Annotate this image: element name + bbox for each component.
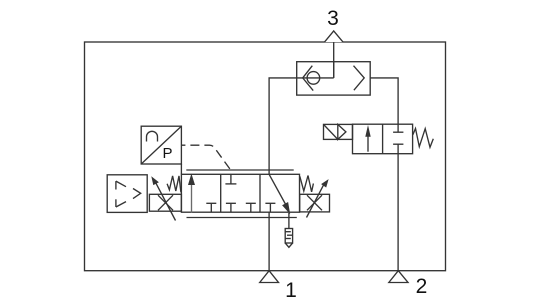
blocked port box2 bottom right — [246, 203, 256, 212]
svg-text:2: 2 — [416, 275, 428, 298]
svg-text:1: 1 — [285, 279, 297, 302]
blocked port box3 bottom — [265, 203, 275, 212]
2/2 valve blocked ports (closed position) — [393, 124, 403, 154]
blocked port box1 bottom — [206, 203, 216, 212]
valve position 1 flow arrow — [188, 174, 195, 214]
blocked port box2 top — [225, 174, 236, 184]
2/2 valve flow arrow (open position) — [365, 125, 370, 152]
dashed pilot line sensor to valve — [181, 145, 230, 170]
wire shuttle right branch to 2/2 valve — [370, 78, 398, 124]
2/2 valve return spring — [413, 129, 434, 148]
wire sensor to valve body — [180, 164, 182, 174]
port 2 — [389, 271, 408, 283]
return spring left — [167, 176, 181, 192]
svg-text:P: P — [162, 145, 172, 162]
shuttle valve V1 — [297, 62, 371, 95]
port 1 — [260, 271, 279, 283]
wire 2/2 valve to port 2 — [397, 154, 399, 271]
proportional solenoid left — [149, 176, 181, 220]
wire port3 to shuttle valve — [333, 42, 335, 78]
2/2-way valve V2 body — [353, 124, 413, 154]
pressure sensor B1 — [141, 126, 181, 164]
wire valve to port 1 — [268, 212, 270, 271]
2/2 valve solenoid — [324, 124, 353, 139]
wire valve to silencer — [288, 213, 290, 229]
valve position 3 diagonal flow arrow — [269, 174, 290, 214]
enclosure frame — [85, 42, 446, 271]
port 3 — [325, 31, 344, 42]
proportional valve V3 body — [181, 174, 299, 212]
proportional solenoid right — [300, 179, 330, 217]
proportional rails — [186, 170, 296, 218]
amplifier module A1 — [107, 175, 147, 213]
wire shuttle left branch down to prop valve — [269, 78, 297, 174]
return spring right — [300, 176, 314, 192]
svg-text:3: 3 — [327, 7, 339, 30]
blocked port box2 bottom left — [226, 203, 236, 212]
silencer — [285, 229, 292, 248]
